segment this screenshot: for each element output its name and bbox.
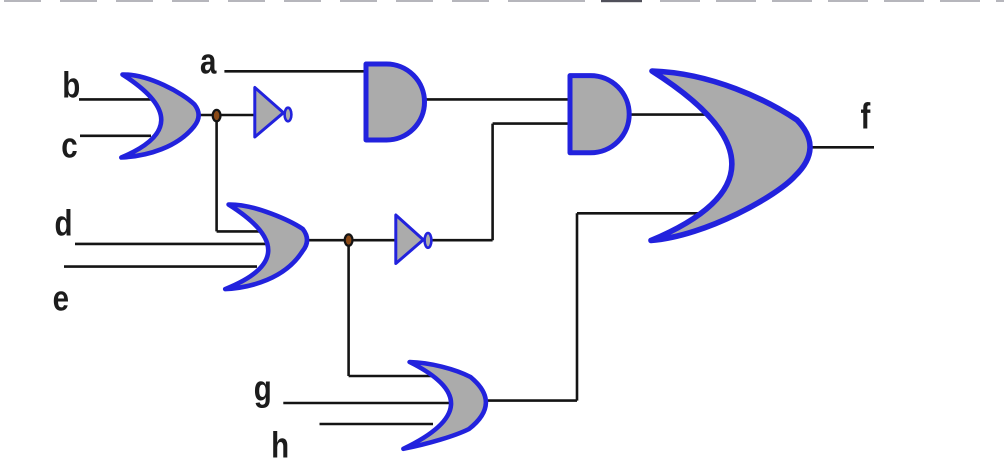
or-gate OR3 big output gate — [651, 71, 810, 241]
wire OR3 lower input horizontal — [577, 212, 699, 215]
inverter NOT1 triangle — [255, 88, 284, 138]
or-gate OR1 (inputs b,c) — [121, 74, 198, 157]
wire g input — [283, 402, 450, 405]
svg-text:g: g — [254, 368, 272, 408]
wire f output — [808, 146, 874, 149]
inverter NOT2 triangle — [396, 215, 424, 264]
wire c input — [80, 135, 151, 138]
wire NOT2 output — [432, 239, 493, 242]
wire d input — [75, 243, 267, 246]
and-gate AND2 — [570, 76, 629, 153]
wire h input — [320, 423, 434, 426]
wire junction1 vertical — [215, 115, 218, 231]
svg-text:b: b — [62, 65, 80, 105]
wire into OR2 top input — [217, 230, 264, 233]
wire OR2 output to NOT2 — [304, 239, 397, 242]
dashed top border (cropped) — [4, 0, 1004, 2]
wire a input — [224, 70, 368, 73]
junction node after OR2 — [345, 234, 353, 245]
dark dash segment — [601, 0, 642, 2]
wire junction2 vertical — [347, 240, 350, 376]
or-gate OR2 (inputs d,e) — [225, 204, 307, 289]
svg-text:c: c — [61, 125, 77, 165]
wire b input — [79, 98, 152, 101]
svg-text:e: e — [53, 278, 69, 318]
wire OR1 output to NOT1 — [196, 114, 256, 117]
wire e input — [64, 265, 257, 268]
inverter NOT2 bubble — [425, 233, 432, 248]
wire into OR4 top input — [349, 375, 437, 378]
svg-text:f: f — [861, 96, 872, 136]
wire vertical up to AND2 — [491, 124, 494, 241]
svg-text:d: d — [55, 203, 73, 243]
and-gate AND1 (input a) — [366, 64, 425, 140]
wire into AND2 lower input — [493, 122, 572, 125]
wire vertical from OR4 output up — [576, 213, 579, 400]
wire AND2 output to OR3 — [627, 113, 716, 116]
wire OR4 output — [484, 399, 577, 402]
or-gate OR4 (inputs g,h) — [403, 362, 485, 449]
svg-text:a: a — [200, 41, 217, 81]
junction node after OR1 — [213, 110, 221, 121]
svg-text:h: h — [271, 425, 289, 463]
inverter NOT1 bubble — [285, 108, 292, 122]
wire AND1 output to AND2 — [423, 98, 572, 101]
